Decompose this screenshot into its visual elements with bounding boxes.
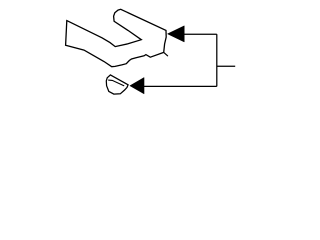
bracket label tick	[217, 65, 235, 67]
part 2: clip (small retainer) outline	[106, 75, 128, 94]
part 2: clip fold line	[108, 80, 124, 86]
callout arrow 1 (points to strip right end)	[168, 26, 185, 42]
part 1: end-lip stub at right end	[164, 53, 168, 56]
callout arrow 2 (points to clip)	[130, 78, 144, 94]
leader line from arrow 1 to bracket	[184, 33, 217, 35]
bracket vertical line	[216, 34, 218, 86]
part 1: luggage room weatherstrip (J-channel strip) outer outline	[66, 9, 167, 66]
leader line from bracket to arrow 2	[144, 85, 217, 87]
